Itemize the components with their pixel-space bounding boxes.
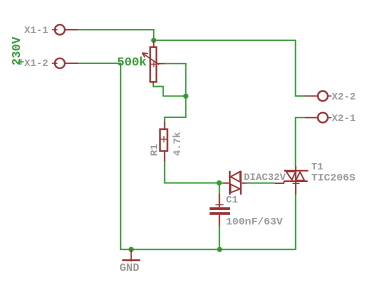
svg-text:500k: 500k — [117, 56, 147, 70]
node junction bottom rail at GND — [129, 247, 134, 252]
triac T1 TIC206S — [275, 163, 356, 195]
svg-text:X1-2: X1-2 — [24, 59, 48, 70]
svg-text:X2-1: X2-1 — [332, 114, 356, 125]
wire C1 bottom to bottom rail — [218, 227, 220, 250]
wire X1-1 to top junction — [78, 30, 154, 41]
node junction top (pot top) — [151, 38, 156, 43]
svg-text:C1: C1 — [226, 196, 238, 207]
resistor R1 — [150, 122, 184, 162]
capacitor C1 — [210, 194, 284, 229]
wire X1-2 down left side and bottom rail — [78, 63, 296, 249]
svg-text:GND: GND — [120, 263, 140, 275]
potentiometer 500k — [117, 40, 165, 84]
wire X2-1 to triac MT2 — [296, 118, 306, 166]
ground GND — [120, 249, 141, 274]
svg-text:R1: R1 — [150, 144, 161, 156]
wire pot bottom to node A — [153, 84, 186, 96]
connector X1-2 — [24, 58, 78, 70]
connector X2-1 — [305, 113, 356, 126]
node A junction (wiper/bottom/R1) — [183, 94, 188, 99]
wire R1 bottom to diac node — [165, 162, 223, 183]
wire node A to R1 top — [165, 96, 186, 121]
diac DIAC32V — [222, 171, 286, 195]
wire top rail to X2-2 — [154, 40, 305, 96]
node junction bottom rail at C1 — [217, 247, 222, 252]
svg-text:X1-1: X1-1 — [24, 26, 48, 37]
wire diac to triac gate — [247, 182, 275, 184]
svg-text:X2-2: X2-2 — [332, 93, 356, 104]
connector X1-1 — [24, 25, 78, 37]
node B junction (R1/diac/C1) — [217, 180, 222, 185]
svg-text:230V: 230V — [10, 36, 24, 66]
wire pot wiper to node A — [165, 64, 186, 97]
svg-text:4.7k: 4.7k — [172, 132, 184, 156]
connector X2-2 — [305, 91, 356, 104]
wire node B to C1 top — [218, 183, 220, 194]
svg-text:DIAC32V: DIAC32V — [244, 173, 286, 184]
svg-text:100nF/63V: 100nF/63V — [226, 217, 283, 229]
svg-text:TIC206S: TIC206S — [311, 172, 355, 184]
net label 230V — [10, 36, 24, 66]
